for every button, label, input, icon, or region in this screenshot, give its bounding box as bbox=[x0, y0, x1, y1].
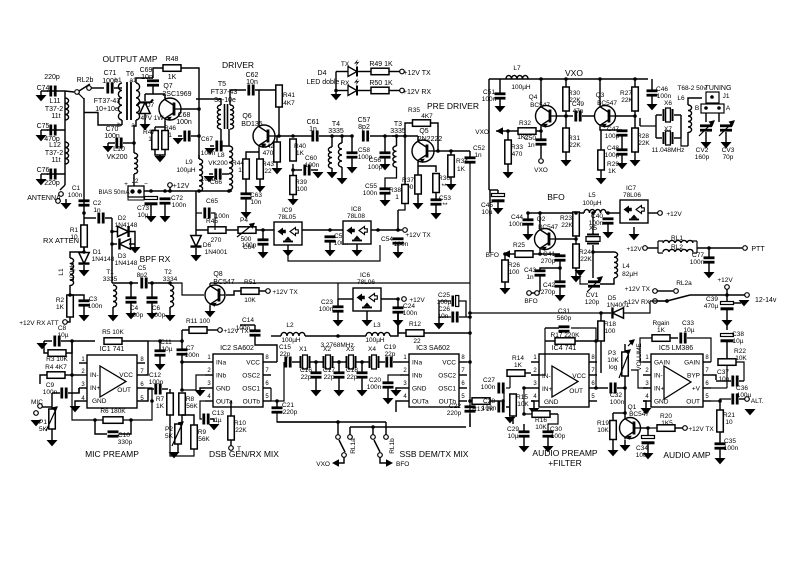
ground C29 bbox=[519, 446, 530, 452]
wire fb loop bbox=[72, 375, 103, 420]
wire L6 top bbox=[688, 98, 702, 105]
junction ic3 outb bbox=[468, 399, 472, 403]
svg-text:R10: R10 bbox=[234, 420, 246, 427]
resistor R43 bbox=[257, 159, 264, 179]
IC3 pin 6 stub bbox=[459, 387, 467, 389]
resistor R14 bbox=[507, 370, 525, 377]
wire r10 top bbox=[271, 400, 277, 402]
ground CV2 bbox=[701, 142, 712, 148]
op-amp IC1 triangle bbox=[100, 366, 126, 397]
svg-text:OSC2: OSC2 bbox=[242, 373, 260, 380]
junction R40 C60 bbox=[291, 168, 295, 172]
svg-text:100n: 100n bbox=[176, 119, 192, 126]
wire RX col bbox=[83, 98, 85, 252]
wire IC8-C54 bbox=[371, 229, 402, 231]
IC2 pin 7 stub bbox=[263, 374, 271, 376]
wire gnd q7 stub bbox=[159, 155, 161, 156]
wire C75 branch bbox=[47, 129, 65, 131]
LED D4 RX bbox=[348, 78, 360, 96]
wire C57 r bbox=[370, 135, 395, 137]
svg-text:R9: R9 bbox=[198, 429, 207, 436]
wire c24 dn bbox=[397, 313, 399, 320]
svg-text:L10: L10 bbox=[113, 146, 125, 153]
svg-text:VXO: VXO bbox=[475, 129, 489, 136]
svg-text:R20: R20 bbox=[660, 413, 672, 420]
wire p3 to ic5 bbox=[631, 370, 648, 388]
connector J1 lower bbox=[701, 104, 724, 113]
wire C67 r bbox=[223, 145, 229, 147]
svg-text:RL1: RL1 bbox=[671, 235, 683, 242]
wire d5 r2 bbox=[650, 300, 667, 302]
wire c37 l bbox=[716, 380, 731, 382]
ground IC4 pin4 bbox=[529, 408, 540, 414]
svg-text:C18: C18 bbox=[346, 367, 358, 374]
wire C8 l bbox=[44, 340, 52, 342]
wire antenna column bbox=[64, 91, 66, 185]
wire c25 gnd stub bbox=[438, 317, 440, 323]
junction Q7 out bbox=[197, 134, 201, 138]
wire c8 to r5 bbox=[72, 340, 95, 342]
wire Q4 col bbox=[540, 79, 542, 105]
svg-text:D4: D4 bbox=[318, 70, 327, 77]
svg-text:OSC2: OSC2 bbox=[438, 373, 456, 380]
terminal T r10 bbox=[229, 446, 234, 451]
inductor L12 bbox=[65, 142, 69, 164]
terminal BFO tp2 bbox=[535, 291, 540, 296]
ground C54 bbox=[393, 252, 404, 258]
svg-text:C36: C36 bbox=[736, 385, 748, 392]
wire VXO box bottom bbox=[489, 189, 490, 191]
svg-text:L5: L5 bbox=[588, 192, 596, 199]
svg-text:IC2 SA602: IC2 SA602 bbox=[220, 345, 254, 352]
resistor R24 bbox=[573, 244, 580, 268]
wire R35 right bbox=[431, 123, 438, 151]
terminal +12V out bbox=[168, 183, 173, 188]
svg-text:11t: 11t bbox=[51, 157, 60, 164]
wire C62 top r bbox=[259, 85, 279, 90]
svg-text:Q2: Q2 bbox=[537, 216, 546, 223]
capacitor C40 bbox=[603, 219, 614, 223]
wire X7 l bbox=[656, 137, 662, 139]
potentiometer P4 wiper bbox=[237, 224, 254, 238]
wire CV2 up bbox=[705, 113, 707, 122]
svg-text:R31: R31 bbox=[568, 135, 580, 142]
wire r16 r bbox=[550, 413, 558, 415]
svg-text:C57: C57 bbox=[358, 117, 371, 124]
potentiometer P3 bbox=[622, 352, 629, 376]
capacitor C8 bbox=[55, 336, 59, 347]
capacitor CV1 arrow bbox=[587, 277, 602, 292]
svg-text:C39: C39 bbox=[706, 296, 718, 303]
svg-text:100n: 100n bbox=[185, 352, 200, 359]
wire r18 up bbox=[600, 313, 602, 321]
svg-text:4K7: 4K7 bbox=[283, 100, 295, 107]
wire L1 up bbox=[70, 252, 84, 258]
inductor T1 bbox=[113, 285, 117, 307]
wire sw bus1 bbox=[277, 421, 386, 423]
junction q1 col bbox=[623, 411, 627, 415]
wire C68 right bbox=[191, 135, 199, 137]
wire Q5 to C52 bbox=[448, 150, 470, 152]
regulator IC7 78L06 bbox=[620, 200, 648, 223]
svg-text:R50 1K: R50 1K bbox=[369, 80, 393, 87]
ground C42 bbox=[555, 295, 566, 301]
svg-text:L11: L11 bbox=[49, 98, 60, 105]
svg-text:C30: C30 bbox=[550, 426, 562, 433]
svg-text:T: T bbox=[237, 446, 241, 453]
wire C61 to T4 bbox=[319, 135, 352, 137]
wire C69 to R48 bbox=[153, 68, 163, 78]
wire C73 dn bbox=[150, 204, 152, 216]
junction R23 top bbox=[574, 211, 578, 215]
wire c20 dn bbox=[387, 388, 389, 398]
ground IC1 pin4 bbox=[70, 406, 81, 412]
svg-text:C5: C5 bbox=[138, 265, 147, 272]
svg-text:3335: 3335 bbox=[103, 276, 118, 283]
svg-text:C60: C60 bbox=[305, 155, 317, 162]
wire C72 dn bbox=[164, 204, 166, 216]
svg-text:CV3: CV3 bbox=[722, 147, 735, 154]
junction T4b top bbox=[340, 134, 344, 138]
ground C55 bbox=[380, 200, 391, 206]
svg-text:C49: C49 bbox=[572, 101, 584, 108]
svg-text:R30: R30 bbox=[568, 90, 580, 97]
wire c32 r bbox=[617, 387, 625, 389]
wire r5 ext bbox=[148, 340, 182, 342]
wire X67 left in bbox=[640, 125, 656, 127]
terminal +12V IC7 bbox=[658, 211, 663, 216]
capacitor C70 bbox=[117, 138, 121, 149]
capacitor C66 bbox=[216, 169, 220, 180]
svg-text:TUNING: TUNING bbox=[705, 85, 732, 92]
resistor R28 bbox=[632, 128, 639, 152]
svg-text:470µ: 470µ bbox=[704, 303, 719, 310]
wire c21 dn bbox=[277, 413, 338, 422]
wire IC7 out bbox=[648, 212, 658, 214]
svg-text:C24: C24 bbox=[403, 303, 415, 310]
wire C2 left bbox=[84, 217, 96, 219]
wire R9 up bbox=[182, 415, 194, 425]
IC5 pin 2 stub bbox=[643, 374, 651, 376]
svg-text:C16: C16 bbox=[300, 367, 312, 374]
svg-text:78L05: 78L05 bbox=[278, 214, 296, 221]
wire C53 mid bbox=[435, 193, 437, 200]
svg-text:C31: C31 bbox=[558, 308, 570, 315]
svg-text:10K: 10K bbox=[607, 357, 619, 364]
resistor Rgain bbox=[652, 335, 670, 342]
svg-text:10K: 10K bbox=[244, 297, 256, 304]
svg-text:R47: R47 bbox=[143, 129, 155, 136]
junction c21 tap bbox=[275, 399, 279, 403]
junction Q3 base node bbox=[633, 114, 637, 118]
wire r7 to p2 bbox=[170, 429, 178, 431]
wire R25 r bbox=[533, 253, 540, 255]
svg-text:C69: C69 bbox=[140, 67, 153, 74]
svg-text:+FILTER: +FILTER bbox=[548, 458, 582, 468]
junction L5 IC7 bbox=[606, 211, 610, 215]
svg-text:R38: R38 bbox=[389, 187, 401, 194]
svg-text:100n: 100n bbox=[657, 93, 672, 100]
svg-text:D5: D5 bbox=[608, 295, 617, 302]
junction X5 L4 bbox=[591, 250, 595, 254]
IC1 pin3 stub bbox=[79, 387, 87, 389]
svg-text:1K5: 1K5 bbox=[661, 420, 673, 427]
junction d5 col bbox=[468, 311, 472, 315]
svg-text:+V: +V bbox=[692, 386, 701, 393]
svg-text:IN-: IN- bbox=[90, 372, 99, 379]
wire IC9-C59 bbox=[302, 229, 343, 231]
crystal X1 bbox=[301, 355, 310, 369]
IC4 pin 1 stub bbox=[531, 361, 539, 363]
wire L1 dn bbox=[69, 285, 71, 295]
inductor T4 secondary bbox=[338, 143, 342, 167]
switch RL1b top2 bbox=[371, 435, 376, 440]
wire X7 r bbox=[674, 137, 681, 139]
wire R29 dn bbox=[600, 170, 602, 178]
inductor L10 bbox=[134, 153, 138, 174]
wire r14 col bbox=[509, 373, 511, 388]
wire R19 link bbox=[613, 412, 625, 414]
svg-text:8p2: 8p2 bbox=[137, 272, 148, 279]
ground C67 bbox=[205, 148, 216, 154]
junction rail C73 bbox=[149, 189, 153, 193]
wire R4 r bbox=[65, 374, 79, 376]
IC1 pin8 stub bbox=[137, 362, 145, 364]
resistor R23 bbox=[573, 212, 580, 236]
wire D2 col bbox=[111, 218, 113, 283]
svg-text:1N4001: 1N4001 bbox=[205, 249, 228, 256]
wire L9 up bbox=[198, 155, 200, 159]
wire R32 r bbox=[536, 127, 541, 131]
ground R43 bbox=[255, 186, 266, 192]
wire C50 dn bbox=[540, 145, 542, 158]
IC3 pin 1 stub bbox=[401, 361, 409, 363]
svg-text:R39: R39 bbox=[295, 179, 307, 186]
svg-text:R24: R24 bbox=[579, 249, 591, 256]
wire Q7 base bbox=[181, 108, 199, 110]
wire rl1a out bbox=[339, 457, 344, 463]
wire Q4 base wire bbox=[557, 115, 566, 117]
svg-text:22p: 22p bbox=[347, 374, 358, 381]
svg-text:RL2: RL2 bbox=[671, 244, 683, 251]
svg-text:1K: 1K bbox=[156, 403, 165, 410]
wire c18 dn bbox=[361, 378, 363, 390]
capacitor CV3 arrow bbox=[719, 121, 734, 136]
wire c33 r bbox=[687, 338, 711, 362]
op-amp IC4 box bbox=[539, 354, 589, 407]
wire fb4 l bbox=[545, 340, 555, 342]
switch RL1a lever bbox=[339, 440, 345, 452]
ground C59 bbox=[325, 250, 336, 256]
svg-text:100p: 100p bbox=[551, 433, 566, 440]
svg-text:C8: C8 bbox=[58, 325, 67, 332]
wire X67 right bracket bbox=[680, 115, 682, 138]
capacitor C21 bbox=[272, 408, 283, 412]
svg-text:MIC: MIC bbox=[31, 399, 43, 406]
capacitor C27 bbox=[499, 383, 503, 394]
wire c21 up bbox=[276, 401, 278, 407]
svg-text:+12V RX: +12V RX bbox=[403, 89, 432, 96]
ground D1 bbox=[79, 270, 90, 276]
wire C55 dn bbox=[384, 194, 386, 200]
capacitor C68 bbox=[185, 131, 189, 142]
terminal +12V RX rl2a bbox=[653, 299, 658, 304]
wire R11 l bbox=[182, 329, 189, 331]
junction Q2 col rail bbox=[538, 211, 542, 215]
wire ic2 inb bbox=[182, 375, 205, 390]
svg-text:C71: C71 bbox=[104, 70, 117, 77]
wire r14 r bbox=[525, 372, 531, 374]
mixer IC3 box bbox=[409, 354, 459, 407]
svg-text:100n: 100n bbox=[394, 241, 409, 248]
IC2 pin 6 stub bbox=[263, 387, 271, 389]
wire T4b drop bbox=[341, 136, 343, 143]
svg-text:−: − bbox=[144, 181, 148, 188]
capacitor C15 bbox=[286, 357, 290, 368]
wire R43 dn bbox=[259, 179, 261, 186]
svg-text:VXO: VXO bbox=[316, 461, 330, 468]
wire c30 up bbox=[548, 414, 558, 431]
ground Q1 bbox=[620, 445, 631, 451]
wire p2 dn bbox=[177, 444, 179, 452]
ground R31 bbox=[561, 160, 572, 166]
transformer T6 secondary bbox=[136, 83, 140, 120]
capacitor C30 bbox=[543, 432, 554, 436]
wire T6 sec bot bbox=[134, 120, 136, 153]
wire R47 up bbox=[154, 127, 156, 131]
diode D6 bbox=[190, 236, 201, 247]
capacitor C44 bbox=[523, 220, 534, 224]
resistor R30 bbox=[563, 87, 570, 111]
capacitor C50 bbox=[536, 140, 547, 144]
svg-text:1: 1 bbox=[148, 136, 152, 143]
svg-text:INb: INb bbox=[216, 373, 227, 380]
switch RL1a top bbox=[336, 435, 341, 440]
resistor R6 bbox=[103, 417, 123, 424]
wire rl1b out bbox=[380, 457, 386, 463]
wire ic2 osc1 drop bbox=[270, 388, 272, 401]
IC2 pin 1 stub bbox=[205, 361, 213, 363]
ground C44 bbox=[523, 234, 534, 240]
ground R28 bbox=[630, 160, 641, 166]
wire CV3 up bbox=[718, 113, 720, 122]
wire c11 up bbox=[159, 341, 161, 350]
wire fb4 l2 bbox=[531, 328, 545, 375]
svg-text:12-14v: 12-14v bbox=[755, 297, 777, 304]
wire R42 up bbox=[276, 136, 278, 142]
resistor R46 bbox=[162, 131, 169, 150]
wire c18 up bbox=[361, 362, 363, 372]
svg-text:J1: J1 bbox=[723, 93, 730, 100]
capacitor C3 bbox=[79, 301, 90, 305]
svg-text:R32: R32 bbox=[519, 120, 531, 127]
wire C40 dn bbox=[607, 224, 609, 232]
ground antenna bbox=[61, 203, 72, 209]
wire c34 dn bbox=[647, 443, 649, 453]
potentiometer P3 wiper bbox=[619, 350, 630, 378]
wire ic2 vcc bbox=[271, 361, 277, 363]
wire rl in bbox=[647, 247, 658, 249]
ground C48 bbox=[617, 163, 628, 169]
svg-text:OUTa: OUTa bbox=[412, 399, 429, 406]
svg-text:OUT: OUT bbox=[117, 387, 131, 394]
wire C59 dn bbox=[329, 242, 331, 250]
capacitor C24 bbox=[393, 308, 404, 312]
svg-text:1: 1 bbox=[168, 132, 172, 139]
wire T6 sec top bbox=[136, 78, 153, 83]
ground C25C26 bbox=[434, 323, 445, 329]
resistor R19 bbox=[610, 421, 617, 440]
svg-text:1n: 1n bbox=[93, 207, 101, 214]
wire c23 rail up bbox=[337, 283, 339, 299]
terminal MIC a bbox=[38, 404, 43, 409]
wire c25c26 col bbox=[469, 283, 471, 427]
wire ic2 outa bbox=[200, 401, 205, 419]
wire ic6 out bbox=[381, 298, 398, 300]
arrow VXO sw bbox=[332, 459, 339, 467]
svg-text:R37: R37 bbox=[402, 177, 414, 184]
svg-text:IN+: IN+ bbox=[654, 386, 665, 393]
resistor R50 bbox=[371, 87, 389, 94]
svg-text:1K: 1K bbox=[657, 327, 666, 334]
wire R29 up bbox=[600, 130, 602, 150]
wire T6 b down bbox=[121, 120, 123, 125]
svg-text:D3: D3 bbox=[118, 253, 127, 260]
svg-text:L4: L4 bbox=[622, 263, 630, 270]
junction C56 bbox=[383, 134, 387, 138]
svg-text:11.048MHz: 11.048MHz bbox=[652, 147, 685, 154]
wire R38 up bbox=[404, 136, 406, 184]
wire reg row bbox=[196, 229, 208, 231]
ground C18 bbox=[357, 390, 368, 396]
wire C52 long dn bbox=[469, 163, 471, 283]
svg-text:LED doble: LED doble bbox=[307, 79, 340, 86]
resistor R51 bbox=[241, 288, 259, 295]
svg-text:C19: C19 bbox=[384, 344, 396, 351]
junction T4 top bbox=[330, 134, 334, 138]
junction Q3 col bbox=[598, 77, 602, 81]
svg-text:B: B bbox=[695, 105, 699, 112]
svg-text:C35: C35 bbox=[724, 438, 736, 445]
crystal X7 bbox=[664, 131, 673, 145]
wire ic5 out bbox=[711, 399, 731, 401]
ground C4 bbox=[126, 313, 137, 319]
wire Q7 top rail bbox=[145, 93, 165, 95]
svg-text:R49 1K: R49 1K bbox=[369, 61, 393, 68]
ground C11 bbox=[155, 364, 166, 370]
svg-text:22p: 22p bbox=[324, 374, 335, 381]
svg-text:VCC: VCC bbox=[442, 360, 456, 367]
resistor R3 bbox=[48, 350, 66, 357]
ground R39 bbox=[288, 199, 299, 205]
wire ic5 byp bbox=[711, 375, 716, 380]
wire bus2 to c22 bbox=[469, 414, 471, 427]
svg-text:5K: 5K bbox=[39, 426, 48, 433]
svg-text:100n: 100n bbox=[610, 399, 625, 406]
crystal X6 bbox=[664, 108, 673, 122]
svg-text:C33: C33 bbox=[682, 320, 694, 327]
wire r8 to p2 bbox=[178, 415, 182, 424]
switch RL1b lever bbox=[374, 440, 380, 452]
wire x2-x3 bbox=[333, 361, 346, 363]
svg-text:100n: 100n bbox=[305, 162, 320, 169]
svg-text:100: 100 bbox=[509, 269, 520, 276]
resistor R1 bbox=[81, 225, 88, 247]
junction R33 bbox=[506, 129, 510, 133]
wire x1-x2 bbox=[310, 361, 323, 363]
terminal ALT bbox=[745, 397, 750, 402]
ground C72 bbox=[160, 216, 171, 222]
